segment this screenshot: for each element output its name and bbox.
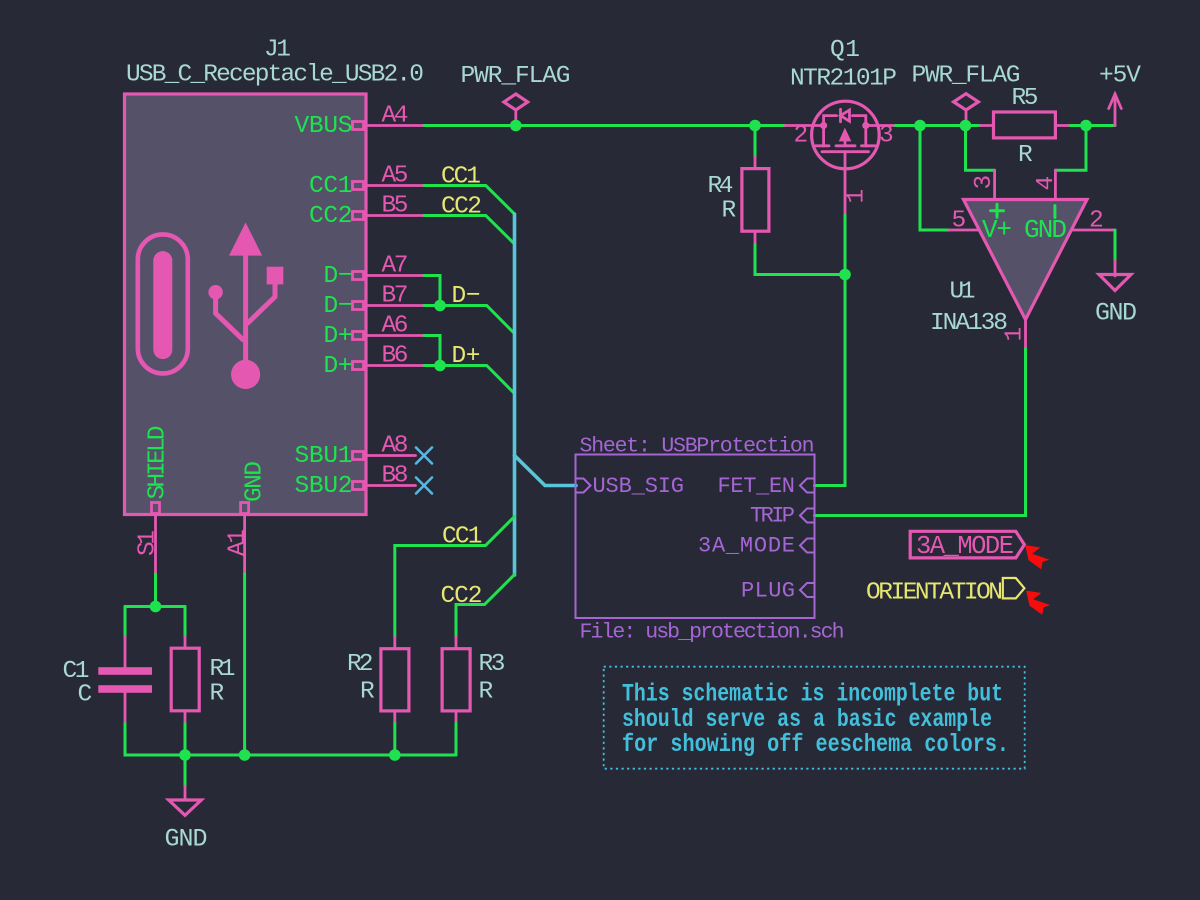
no-connect X on SBU1 (416, 448, 432, 464)
svg-text:1: 1 (844, 189, 871, 204)
svg-text:R3: R3 (479, 651, 506, 678)
sheet pin TRIP (750, 504, 815, 529)
svg-text:Q1: Q1 (830, 37, 860, 64)
svg-text:3A_MODE: 3A_MODE (916, 532, 1014, 561)
bus vertical USB_SIG (513, 214, 517, 575)
svg-text:File: usb_protection.sch: File: usb_protection.sch (580, 621, 845, 645)
svg-text:4: 4 (1033, 176, 1060, 191)
J1 pin A6 D+ (324, 313, 425, 351)
sheet pin FET_EN (718, 474, 815, 499)
wire VBUS A4 to Q1 (424, 124, 785, 127)
svg-text:R2: R2 (347, 651, 374, 678)
power symbol +5V (1099, 63, 1141, 126)
wire S1 shield down (154, 574, 157, 607)
J1 USB-C connector glyph (138, 234, 188, 373)
wire R5 right to +5V (1070, 124, 1115, 127)
svg-text:A5: A5 (382, 163, 409, 190)
svg-text:B7: B7 (382, 283, 409, 310)
svg-text:R: R (210, 681, 225, 708)
J1 pin B5 CC2 (309, 193, 424, 231)
svg-text:R1: R1 (210, 656, 236, 683)
svg-text:CC1: CC1 (309, 173, 353, 200)
svg-text:INA138: INA138 (930, 310, 1008, 337)
svg-text:SBU2: SBU2 (295, 473, 353, 500)
wire A1 gnd column (243, 574, 246, 755)
global label ORIENTATION (866, 578, 1024, 607)
svg-text:Sheet: USBProtection: Sheet: USBProtection (580, 435, 815, 459)
svg-text:D−: D− (324, 263, 353, 290)
resistor R5 (980, 85, 1070, 169)
resistor R1 (171, 637, 235, 724)
svg-text:2: 2 (1089, 208, 1104, 235)
svg-text:R: R (722, 198, 737, 225)
junction D+ (434, 360, 446, 372)
resistor R4 (708, 157, 769, 245)
svg-text:5: 5 (952, 208, 967, 235)
wire opamp out to GND symbol (1114, 230, 1117, 260)
wire D- B7 to bus entry (424, 306, 515, 334)
wire Q1 gate down to FET_EN (815, 215, 846, 485)
svg-text:+5V: +5V (1099, 63, 1141, 90)
bus branch to sheet USB_SIG (515, 456, 577, 486)
J1 pin B7 D- (324, 283, 425, 321)
comment text box (604, 667, 1025, 769)
svg-text:PWR_FLAG: PWR_FLAG (461, 63, 571, 90)
ground rail wire (185, 754, 456, 757)
svg-text:R: R (360, 679, 375, 706)
junction gnd rail R1 (179, 749, 191, 761)
svg-text:J1: J1 (264, 37, 291, 64)
wire R2 bottom to gnd rail (393, 723, 396, 755)
svg-text:R4: R4 (708, 173, 734, 200)
wire Q1 drain to R5 area (896, 124, 981, 127)
wire R4 top (754, 126, 757, 158)
junction gnd rail A1 (239, 749, 251, 761)
wire D- A7 down to B7 (424, 276, 440, 306)
svg-text:D+: D+ (452, 343, 481, 370)
svg-text:B8: B8 (382, 463, 409, 490)
svg-text:GND: GND (165, 825, 208, 854)
J1 pin B6 D+ (324, 343, 425, 381)
J1 pin A4 VBUS (295, 103, 425, 141)
sheet pin PLUG (741, 579, 815, 604)
resistor R3 (442, 637, 505, 723)
wire R4 bottom elbow to gate column (755, 245, 845, 275)
svg-text:C: C (78, 682, 93, 709)
svg-text:CC1: CC1 (441, 164, 481, 191)
ground symbol GND right (1095, 260, 1137, 327)
svg-text:B6: B6 (382, 343, 409, 370)
hierarchical sheet USBProtection (576, 435, 845, 645)
svg-text:2: 2 (794, 123, 809, 150)
junction R5 / +5V (1080, 120, 1092, 132)
svg-text:CC2: CC2 (441, 194, 482, 221)
wire CC2 pin to bus entry (424, 216, 515, 245)
svg-text:ORIENTATION: ORIENTATION (866, 580, 1003, 607)
svg-text:for showing off eeschema color: for showing off eeschema colors. (622, 730, 1009, 759)
ERC arrow at ORIENTATION (1026, 591, 1050, 615)
svg-text:D−: D− (452, 283, 481, 310)
junction VBUS / PWR_FLAG (510, 120, 522, 132)
svg-text:GND: GND (1095, 299, 1137, 328)
svg-text:GND: GND (1024, 215, 1067, 245)
svg-text:CC2: CC2 (309, 203, 353, 230)
wire CC1 lower from bus entry to R2 (395, 517, 515, 638)
wire D+ B6 to bus entry (424, 366, 515, 394)
sheet pin 3A_MODE (698, 534, 815, 559)
J1 USB trident logo (208, 223, 283, 390)
svg-text:U1: U1 (950, 279, 976, 306)
svg-text:PLUG: PLUG (741, 579, 795, 604)
svg-text:B5: B5 (382, 193, 409, 220)
svg-text:GND: GND (242, 461, 269, 502)
no-connect X on SBU2 (416, 478, 432, 494)
J1 pin A1 GND (225, 461, 269, 574)
connector J1 body (125, 94, 367, 515)
J1 pin A5 CC1 (309, 163, 424, 201)
wire opamp +in elbow (920, 126, 949, 231)
svg-text:A1: A1 (225, 529, 252, 556)
junction drain / opamp+in (914, 120, 926, 132)
svg-text:SBU1: SBU1 (295, 443, 353, 470)
svg-text:PWR_FLAG: PWR_FLAG (912, 63, 1021, 90)
wire C1 branch down (124, 607, 127, 637)
svg-text:3A_MODE: 3A_MODE (698, 534, 795, 559)
svg-text:VBUS: VBUS (295, 113, 353, 140)
ERC arrow at 3A_MODE (1025, 545, 1049, 569)
capacitor C1 (63, 637, 153, 724)
svg-text:A7: A7 (382, 253, 409, 280)
resistor R2 (347, 637, 409, 723)
svg-text:FET_EN: FET_EN (718, 474, 796, 499)
svg-text:USB_SIG: USB_SIG (593, 474, 685, 499)
svg-text:CC2: CC2 (441, 583, 483, 610)
hierarchical label 3A_MODE (910, 531, 1024, 561)
wire opamp GND pin elbow (1055, 126, 1086, 171)
svg-text:USB_C_Receptacle_USB2.0: USB_C_Receptacle_USB2.0 (126, 62, 424, 89)
svg-text:3: 3 (971, 175, 998, 190)
junction D- (434, 300, 446, 312)
junction gnd rail R2 (389, 749, 401, 761)
svg-text:A8: A8 (382, 433, 409, 460)
wire opamp out1 down to TRIP (815, 349, 1026, 516)
svg-text:D+: D+ (324, 323, 353, 350)
svg-text:S1: S1 (135, 530, 162, 556)
svg-text:NTR2101P: NTR2101P (790, 66, 897, 93)
wire R3 bottom to gnd rail (455, 723, 458, 755)
J1 pin B8 SBU2 (295, 463, 416, 501)
wire CC2 lower from bus entry to R3 (456, 575, 515, 637)
svg-text:D−: D− (324, 293, 353, 320)
power flag PWR_FLAG 1 (461, 63, 571, 126)
svg-text:SHIELD: SHIELD (145, 426, 172, 500)
transistor Q1 (785, 37, 897, 215)
svg-text:R5: R5 (1012, 85, 1039, 112)
wire R1 branch down (184, 607, 187, 637)
J1 pin S1 SHIELD (135, 426, 172, 575)
sheet pin USB_SIG (576, 474, 685, 499)
junction PWR_FLAG 2 (960, 120, 972, 132)
op-amp U1 (930, 170, 1115, 348)
wire shield split horizontal (125, 605, 185, 608)
junction VBUS / R4 (749, 120, 761, 132)
ground symbol GND bottom (165, 755, 208, 854)
svg-text:R: R (1018, 142, 1033, 169)
wire opamp V+ elbow (966, 126, 995, 171)
svg-text:TRIP: TRIP (750, 504, 795, 529)
J1 pin A8 SBU1 (295, 433, 416, 471)
wire D+ A6 down to B6 (424, 336, 440, 366)
J1 pin A7 D- (324, 253, 425, 291)
junction gate / R4 (839, 269, 851, 281)
wire CC1 pin to bus entry (424, 186, 515, 215)
power flag PWR_FLAG 2 (912, 63, 1021, 126)
svg-text:D+: D+ (324, 353, 353, 380)
wire R1 bottom to gnd rail (184, 724, 187, 755)
svg-text:A4: A4 (382, 103, 409, 130)
svg-text:3: 3 (879, 123, 894, 150)
junction S1 (150, 601, 162, 613)
wire C1 bottom to gnd rail (125, 724, 185, 755)
svg-text:R: R (479, 679, 494, 706)
svg-text:CC1: CC1 (442, 524, 483, 551)
svg-text:A6: A6 (382, 313, 409, 340)
svg-text:V+: V+ (982, 215, 1012, 245)
